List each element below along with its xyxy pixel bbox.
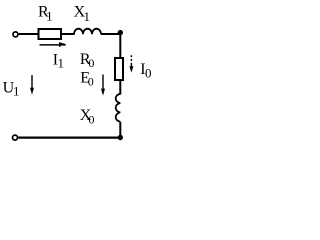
node B (bottom junction dot): [118, 135, 123, 140]
terminal T1 (top-left input): [13, 32, 18, 37]
terminal T2 (bottom-left input): [13, 135, 18, 140]
bottom wire: [18, 137, 120, 139]
inductor X0: [116, 94, 121, 122]
wire X1 to node A: [101, 33, 121, 35]
arrow I0 (dotted, downward): [129, 55, 133, 72]
resistor R1: [39, 29, 62, 39]
inductor X1: [74, 29, 101, 35]
node A (top junction dot): [118, 30, 123, 35]
wire X0 to node B: [119, 122, 121, 138]
wire R1 to X1: [62, 33, 75, 35]
wire top-left: [19, 33, 38, 35]
arrow U1 (voltage direction, downward): [30, 75, 34, 95]
wire R0 to X0: [119, 80, 121, 95]
wire node A down to R0: [119, 33, 121, 58]
resistor R0: [115, 58, 123, 80]
arrow I1 (current direction): [40, 43, 66, 47]
arrow E0 (emf direction, downward): [101, 75, 105, 96]
